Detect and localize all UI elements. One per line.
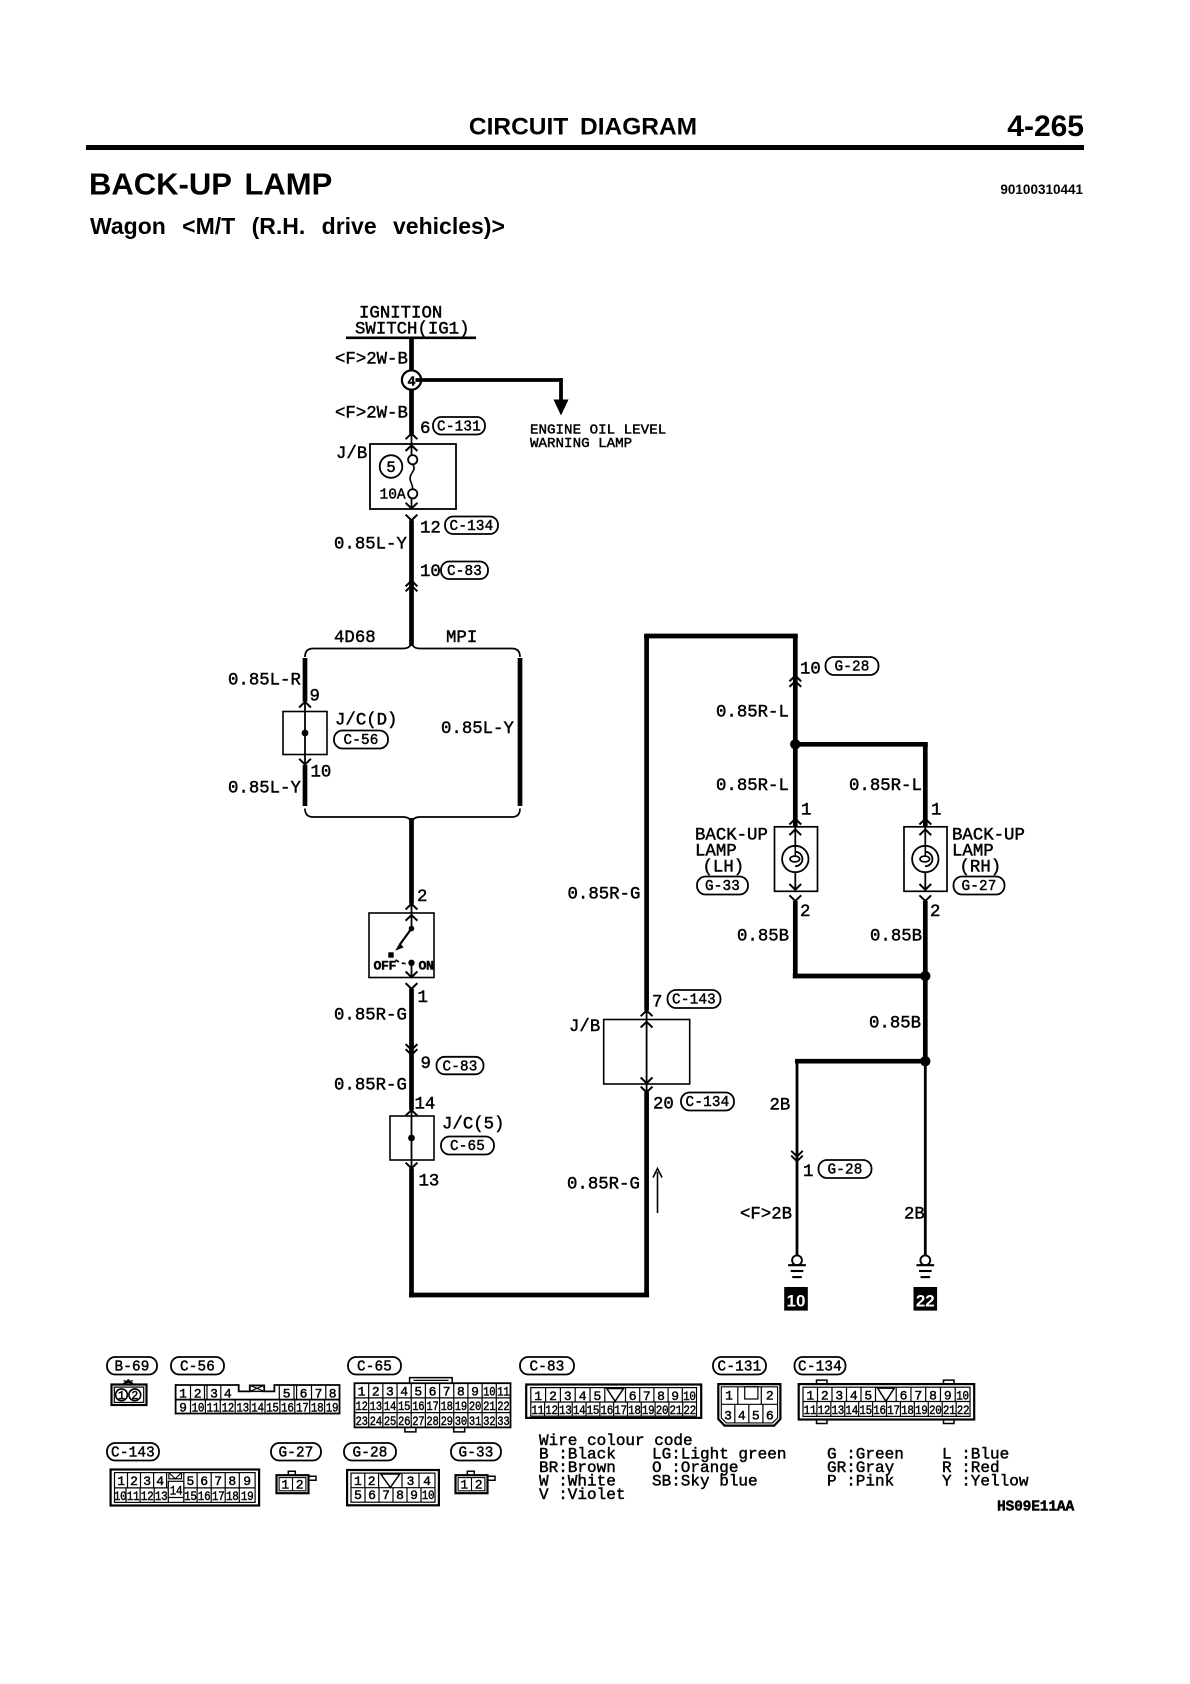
svg-text:2: 2: [475, 1477, 483, 1492]
svg-text:14: 14: [845, 1403, 858, 1418]
svg-text:16: 16: [873, 1403, 886, 1418]
svg-text:1: 1: [179, 1386, 187, 1401]
svg-text:22: 22: [683, 1403, 696, 1418]
svg-text:1: 1: [418, 989, 428, 1008]
svg-text:12: 12: [420, 520, 441, 539]
svg-text:3: 3: [564, 1389, 572, 1404]
svg-text:OFF: OFF: [374, 958, 397, 973]
svg-text:11: 11: [804, 1403, 817, 1418]
svg-text:2: 2: [417, 888, 427, 907]
svg-text:7: 7: [914, 1388, 922, 1403]
svg-text:5: 5: [354, 1488, 362, 1503]
svg-text:13: 13: [832, 1403, 845, 1418]
svg-text:17: 17: [212, 1489, 225, 1504]
svg-text:17: 17: [887, 1403, 900, 1418]
svg-text:1: 1: [117, 1474, 125, 1489]
svg-text:J/B: J/B: [336, 445, 367, 464]
svg-text:14: 14: [170, 1484, 183, 1499]
svg-text:CIRCUIT DIAGRAM: CIRCUIT DIAGRAM: [469, 114, 697, 141]
svg-text:0.85B: 0.85B: [870, 928, 922, 947]
svg-text:C-83: C-83: [442, 1059, 477, 1075]
svg-text:4: 4: [400, 1385, 408, 1400]
svg-text:7: 7: [652, 994, 662, 1013]
svg-text:0.85R-G: 0.85R-G: [567, 1176, 640, 1195]
svg-text:8: 8: [657, 1389, 665, 1404]
svg-text:19: 19: [241, 1489, 254, 1504]
svg-text:1: 1: [281, 1477, 289, 1492]
svg-text:0.85R-L: 0.85R-L: [716, 704, 789, 723]
svg-text:10: 10: [683, 1389, 696, 1404]
svg-text:14: 14: [573, 1403, 586, 1418]
svg-text:33: 33: [497, 1414, 509, 1429]
svg-text:0.85L-Y: 0.85L-Y: [334, 536, 407, 555]
svg-text:10: 10: [800, 661, 821, 680]
svg-text:8: 8: [457, 1385, 465, 1400]
svg-text:5: 5: [283, 1386, 291, 1401]
svg-text:WARNING LAMP: WARNING LAMP: [530, 436, 632, 452]
svg-text:C-56: C-56: [180, 1359, 215, 1375]
svg-text:11: 11: [127, 1489, 140, 1504]
svg-text:12: 12: [141, 1489, 154, 1504]
svg-text:0.85R-L: 0.85R-L: [849, 777, 922, 796]
svg-text:2: 2: [372, 1385, 380, 1400]
svg-text:20: 20: [653, 1096, 674, 1115]
svg-text:2B: 2B: [770, 1097, 791, 1116]
svg-text:16: 16: [198, 1489, 211, 1504]
svg-text:9: 9: [671, 1389, 679, 1404]
svg-text:0.85B: 0.85B: [737, 928, 789, 947]
svg-text:Y :Yellow: Y :Yellow: [942, 1472, 1029, 1490]
svg-text:6: 6: [200, 1474, 208, 1489]
svg-text:6: 6: [300, 1386, 308, 1401]
svg-text:14: 14: [384, 1399, 397, 1414]
svg-text:18: 18: [441, 1399, 453, 1414]
svg-text:C-143: C-143: [111, 1445, 155, 1461]
svg-text:2: 2: [130, 1474, 138, 1489]
svg-text:13: 13: [155, 1489, 168, 1504]
svg-text:9: 9: [421, 1055, 431, 1074]
svg-text:C-56: C-56: [343, 733, 378, 749]
svg-text:V :Violet: V :Violet: [539, 1486, 625, 1504]
svg-text:0.85B: 0.85B: [869, 1015, 921, 1034]
svg-text:15: 15: [587, 1403, 600, 1418]
svg-text:21: 21: [943, 1403, 956, 1418]
svg-text:10: 10: [483, 1385, 495, 1400]
svg-text:28: 28: [426, 1414, 438, 1429]
svg-text:21: 21: [670, 1403, 683, 1418]
svg-text:18: 18: [226, 1489, 239, 1504]
svg-text:16: 16: [281, 1400, 294, 1415]
svg-text:23: 23: [355, 1414, 367, 1429]
svg-text:9: 9: [471, 1385, 479, 1400]
svg-text:SB:Sky blue: SB:Sky blue: [652, 1472, 758, 1490]
svg-text:G-27: G-27: [278, 1445, 313, 1461]
svg-text:0.85R-G: 0.85R-G: [334, 1077, 407, 1096]
svg-text:20: 20: [929, 1403, 942, 1418]
svg-text:2: 2: [800, 903, 810, 922]
svg-text:<F>2B: <F>2B: [740, 1206, 792, 1225]
svg-text:14: 14: [415, 1096, 436, 1115]
svg-text:1: 1: [460, 1477, 468, 1492]
svg-text:13: 13: [419, 1173, 440, 1192]
svg-text:J/C(5): J/C(5): [442, 1116, 504, 1135]
svg-text:10A: 10A: [380, 488, 406, 504]
svg-text:18: 18: [628, 1403, 641, 1418]
svg-text:1: 1: [806, 1388, 814, 1403]
svg-text:15: 15: [398, 1399, 410, 1414]
svg-text:Wagon <M/T (R.H. drive vehicle: Wagon <M/T (R.H. drive vehicles)>: [90, 213, 505, 239]
svg-text:19: 19: [642, 1403, 655, 1418]
svg-text:4: 4: [156, 1474, 164, 1489]
svg-text:11: 11: [531, 1403, 544, 1418]
svg-text:9: 9: [243, 1474, 251, 1489]
svg-text:4D68: 4D68: [334, 629, 376, 648]
svg-text:2: 2: [549, 1389, 557, 1404]
svg-text:5: 5: [186, 1474, 194, 1489]
svg-text:10: 10: [192, 1400, 205, 1415]
svg-text:5: 5: [752, 1409, 760, 1424]
svg-text:0.85L-Y: 0.85L-Y: [441, 720, 514, 739]
svg-text:3: 3: [386, 1385, 394, 1400]
svg-text:5: 5: [593, 1389, 601, 1404]
svg-text:C-65: C-65: [357, 1359, 392, 1375]
svg-text:22: 22: [497, 1399, 509, 1414]
svg-text:4: 4: [738, 1409, 746, 1424]
svg-text:B-69: B-69: [114, 1359, 149, 1375]
svg-text:7: 7: [643, 1389, 651, 1404]
svg-text:22: 22: [957, 1403, 970, 1418]
svg-text:16: 16: [412, 1399, 424, 1414]
svg-text:12: 12: [545, 1403, 558, 1418]
svg-text:ON: ON: [419, 958, 435, 973]
svg-text:8: 8: [329, 1386, 337, 1401]
svg-text:6: 6: [766, 1409, 774, 1424]
svg-text:1: 1: [931, 802, 941, 821]
svg-text:G-33: G-33: [705, 879, 740, 895]
svg-text:10: 10: [311, 764, 332, 783]
svg-text:P :Pink: P :Pink: [827, 1472, 894, 1490]
svg-text:3: 3: [724, 1409, 732, 1424]
svg-text:9: 9: [310, 688, 320, 707]
svg-text:29: 29: [441, 1414, 453, 1429]
svg-text:(RH): (RH): [960, 859, 1002, 878]
svg-text:15: 15: [859, 1403, 872, 1418]
svg-text:J/C(D): J/C(D): [335, 712, 397, 731]
svg-text:C-134: C-134: [798, 1359, 842, 1375]
svg-text:C-65: C-65: [450, 1139, 485, 1155]
svg-text:13: 13: [236, 1400, 249, 1415]
svg-text:8: 8: [228, 1474, 236, 1489]
svg-text:20: 20: [469, 1399, 481, 1414]
svg-text:4: 4: [407, 375, 415, 390]
svg-text:10: 10: [420, 563, 441, 582]
svg-text:90100310441: 90100310441: [1000, 182, 1083, 197]
svg-text:19: 19: [455, 1399, 467, 1414]
svg-text:22: 22: [916, 1292, 935, 1311]
svg-text:17: 17: [426, 1399, 438, 1414]
svg-text:3: 3: [835, 1388, 843, 1403]
svg-text:C-134: C-134: [686, 1095, 730, 1111]
svg-text:2: 2: [930, 903, 940, 922]
svg-text:6: 6: [368, 1488, 376, 1503]
svg-text:MPI: MPI: [446, 629, 477, 648]
svg-text:11: 11: [497, 1385, 510, 1400]
svg-text:5: 5: [414, 1385, 422, 1400]
svg-text:4: 4: [579, 1389, 587, 1404]
svg-text:15: 15: [184, 1489, 197, 1504]
svg-text:C-83: C-83: [529, 1359, 564, 1375]
svg-text:6: 6: [629, 1389, 637, 1404]
svg-text:1: 1: [725, 1389, 733, 1404]
svg-text:20: 20: [656, 1403, 669, 1418]
svg-text:12: 12: [818, 1403, 831, 1418]
svg-text:G-27: G-27: [961, 879, 996, 895]
svg-text:G-28: G-28: [352, 1445, 387, 1461]
svg-text:21: 21: [483, 1399, 496, 1414]
svg-text:32: 32: [483, 1414, 495, 1429]
svg-text:15: 15: [266, 1400, 279, 1415]
svg-text:30: 30: [455, 1414, 467, 1429]
svg-text:3: 3: [143, 1474, 151, 1489]
svg-text:G-28: G-28: [827, 1163, 862, 1179]
svg-text:1: 1: [534, 1389, 542, 1404]
svg-text:C-143: C-143: [672, 993, 716, 1009]
svg-text:4: 4: [850, 1388, 858, 1403]
svg-text:0.85L-R: 0.85L-R: [228, 672, 301, 691]
svg-text:2: 2: [296, 1477, 304, 1492]
svg-text:2: 2: [821, 1388, 829, 1403]
svg-text:2: 2: [194, 1386, 202, 1401]
svg-text:2: 2: [766, 1389, 774, 1404]
svg-text:0.85L-Y: 0.85L-Y: [228, 780, 301, 799]
svg-text:C-131: C-131: [437, 419, 481, 435]
svg-text:4: 4: [224, 1386, 232, 1401]
svg-text:3: 3: [210, 1386, 218, 1401]
svg-text:HS09E11AA: HS09E11AA: [997, 1500, 1074, 1516]
svg-text:10: 10: [422, 1488, 435, 1503]
svg-text:C-131: C-131: [718, 1359, 762, 1375]
svg-text:8: 8: [929, 1388, 937, 1403]
svg-text:27: 27: [412, 1414, 424, 1429]
svg-text:24: 24: [370, 1414, 383, 1429]
svg-text:(LH): (LH): [703, 859, 745, 878]
svg-text:1: 1: [803, 1163, 813, 1182]
svg-text:1: 1: [801, 802, 811, 821]
svg-text:12: 12: [221, 1400, 234, 1415]
svg-text:16: 16: [600, 1403, 613, 1418]
svg-text:5: 5: [864, 1388, 872, 1403]
svg-text:10: 10: [114, 1489, 127, 1504]
svg-text:9: 9: [944, 1388, 952, 1403]
svg-text:31: 31: [469, 1414, 482, 1429]
svg-text:17: 17: [296, 1400, 309, 1415]
svg-text:<F>2W-B: <F>2W-B: [335, 405, 408, 424]
svg-text:C-134: C-134: [450, 519, 494, 535]
svg-text:6: 6: [420, 420, 430, 439]
svg-text:9: 9: [410, 1488, 418, 1503]
svg-text:10: 10: [787, 1292, 806, 1311]
svg-text:4-265: 4-265: [1007, 110, 1084, 143]
svg-text:10: 10: [956, 1388, 969, 1403]
svg-text:7: 7: [382, 1488, 390, 1503]
svg-text:19: 19: [915, 1403, 928, 1418]
svg-text:5: 5: [386, 459, 395, 477]
svg-text:6: 6: [900, 1388, 908, 1403]
svg-text:7: 7: [443, 1385, 451, 1400]
svg-text:11: 11: [207, 1400, 220, 1415]
svg-text:14: 14: [251, 1400, 264, 1415]
svg-text:7: 7: [214, 1474, 222, 1489]
svg-text:17: 17: [614, 1403, 627, 1418]
svg-text:13: 13: [370, 1399, 382, 1414]
svg-text:8: 8: [396, 1488, 404, 1503]
svg-text:G-28: G-28: [834, 660, 869, 676]
svg-text:0.85R-G: 0.85R-G: [334, 1007, 407, 1026]
svg-text:2: 2: [131, 1390, 138, 1403]
svg-text:18: 18: [901, 1403, 914, 1418]
svg-text:C-83: C-83: [447, 564, 482, 580]
svg-text:6: 6: [429, 1385, 437, 1400]
svg-text:1: 1: [358, 1385, 366, 1400]
svg-text:19: 19: [326, 1400, 339, 1415]
svg-text:1: 1: [118, 1390, 125, 1403]
svg-text:18: 18: [311, 1400, 324, 1415]
svg-text:0.85R-L: 0.85R-L: [716, 777, 789, 796]
svg-text:25: 25: [384, 1414, 396, 1429]
svg-text:J/B: J/B: [569, 1018, 600, 1037]
svg-text:26: 26: [398, 1414, 410, 1429]
svg-text:BACK-UP LAMP: BACK-UP LAMP: [89, 167, 332, 202]
svg-text:0.85R-G: 0.85R-G: [568, 886, 641, 905]
svg-text:12: 12: [355, 1399, 367, 1414]
svg-text:13: 13: [559, 1403, 572, 1418]
svg-text:G-33: G-33: [458, 1445, 493, 1461]
svg-text:<F>2W-B: <F>2W-B: [335, 351, 408, 370]
svg-text:2B: 2B: [904, 1206, 925, 1225]
svg-text:9: 9: [179, 1400, 187, 1415]
svg-text:7: 7: [315, 1386, 323, 1401]
